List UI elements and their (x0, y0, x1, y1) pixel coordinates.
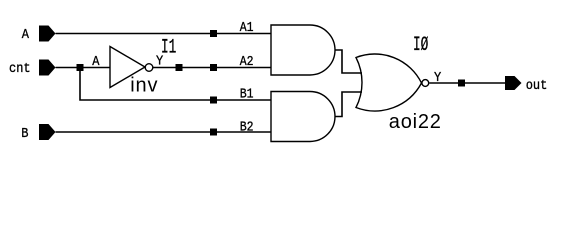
pin label A1 (240, 19, 254, 35)
svg-text:B2: B2 (240, 118, 254, 134)
NOR output bubble (422, 80, 429, 87)
svg-text:A: A (22, 26, 29, 42)
port label A (22, 26, 29, 42)
pin label B2 (240, 118, 254, 134)
svg-text:I1: I1 (161, 37, 176, 60)
svg-text:B1: B1 (240, 85, 254, 101)
wire net B from marker to B2 pin (56, 131, 272, 133)
inverter output bubble (145, 64, 153, 72)
svg-text:B: B (21, 125, 28, 141)
port label out (526, 77, 548, 93)
junction square on A2 row at pin column (210, 64, 217, 71)
junction square after inverter (176, 64, 183, 71)
input port marker A (39, 26, 56, 42)
svg-text:aoi22: aoi22 (389, 111, 442, 133)
svg-text:A1: A1 (240, 19, 254, 35)
junction square on B1 row at pin column (210, 97, 217, 104)
pin label A (inverter input) (92, 53, 99, 69)
instance label I1 (161, 37, 176, 60)
NOR gate U I0 body (356, 54, 422, 111)
pin label Y (inverter output) (156, 53, 163, 69)
junction square on net out (458, 80, 465, 87)
lower AND output wire to NOR lower input (335, 92, 362, 117)
wire net from inverter bubble to A2 pin (153, 67, 271, 69)
svg-text:cnt: cnt (9, 60, 31, 76)
wire net A from marker to A1 pin (56, 33, 272, 35)
wire net out from bubble to output marker (429, 82, 505, 84)
input port marker B (39, 124, 56, 140)
cell label aoi22 (389, 111, 442, 133)
pin label A2 (240, 53, 254, 69)
junction square on net A at pin column (210, 30, 217, 37)
svg-text:A: A (92, 53, 99, 69)
junction square on net cnt (77, 64, 84, 71)
cell label inv (130, 75, 158, 97)
svg-text:IØ: IØ (413, 35, 428, 58)
wire branch from cnt junction down and right to B1 pin (80, 68, 271, 101)
pin label Y (NOR output) (434, 69, 441, 85)
inverter U I1 triangle (110, 47, 145, 88)
instance label I0 (slashed zero) (413, 35, 428, 58)
AND gate lower (B1,B2 inputs) (271, 92, 335, 142)
output port marker out (505, 76, 522, 90)
svg-text:out: out (526, 77, 548, 93)
pin label B1 (240, 85, 254, 101)
svg-text:inv: inv (130, 75, 158, 97)
junction square on net B at pin column (210, 129, 217, 136)
svg-text:A2: A2 (240, 53, 254, 69)
AND gate upper (A1,A2 inputs) (271, 25, 335, 75)
wire net cnt from marker to inverter input (56, 67, 111, 69)
input port marker cnt (39, 60, 56, 76)
port label B (21, 125, 28, 141)
port label cnt (9, 60, 31, 76)
upper AND output wire to NOR upper input (335, 50, 362, 73)
